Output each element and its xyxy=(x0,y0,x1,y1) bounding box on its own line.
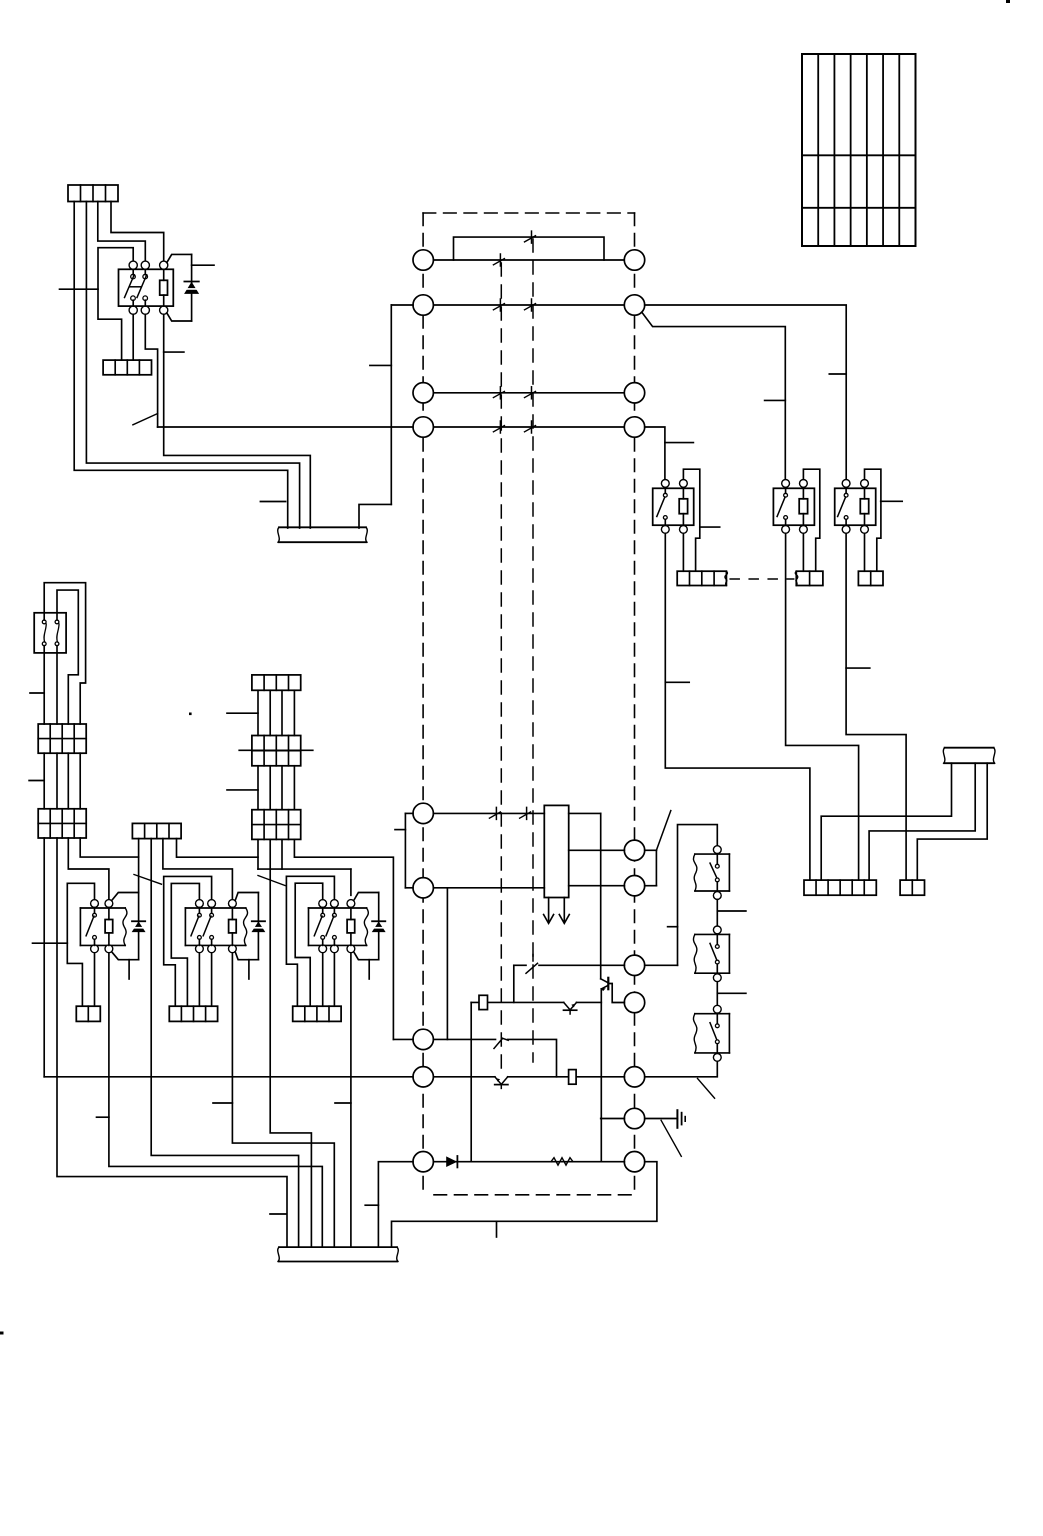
KA diode branch xyxy=(112,893,139,960)
transistor Q1 xyxy=(601,978,625,1003)
relay K1 box xyxy=(119,269,174,306)
module right pin R9 xyxy=(624,1067,644,1087)
switch box S4 xyxy=(34,613,66,653)
KB terminal bot2 xyxy=(208,945,216,953)
KA t1 loop xyxy=(67,883,94,1006)
KC contact pins 2 xyxy=(333,908,337,946)
switch S1 box xyxy=(693,854,729,891)
right bracket R5-R6 xyxy=(645,850,657,885)
connector P3 xyxy=(677,571,727,585)
switch S2 box xyxy=(693,934,729,973)
wire K1 pin1 top loop xyxy=(98,248,133,360)
K1 terminal t4 xyxy=(129,306,137,314)
wire P7-4 rail xyxy=(177,839,259,858)
wire J1 to main rail xyxy=(569,812,601,814)
K4 coil bottom wire xyxy=(864,534,866,572)
tick right of K2 xyxy=(700,526,720,528)
tick on L9 drop xyxy=(365,1204,378,1206)
wire P7-2 long to harness W2 xyxy=(151,839,298,1248)
module left pin L3 xyxy=(413,383,433,403)
K4 terminal top1 xyxy=(842,480,850,488)
harness bar W3 xyxy=(945,747,994,749)
wire T2-4 to connector P7 xyxy=(80,838,138,857)
module right pin R11 xyxy=(624,1152,644,1172)
bracket drop to harness W1 xyxy=(359,504,391,528)
K4 terminal top2 xyxy=(861,480,869,488)
connector P10 xyxy=(76,1006,100,1021)
KC switch arm 1 xyxy=(314,916,322,936)
relay KC box xyxy=(309,908,369,945)
KA stub xyxy=(128,960,130,979)
S3 terminal bottom xyxy=(713,1054,721,1062)
wire row3 xyxy=(433,392,624,394)
module left pin L7 xyxy=(413,1029,433,1049)
K3 coil top loop xyxy=(803,469,819,571)
row1 loop xyxy=(454,237,605,260)
KC diode branch xyxy=(354,893,379,960)
tick near harness W2 xyxy=(270,1213,286,1215)
tick on K4 feed xyxy=(829,373,846,375)
wire P7-3 to KB coil xyxy=(163,839,233,900)
harness bar W2 xyxy=(279,1246,397,1248)
thermal contact V2 xyxy=(495,1077,508,1085)
ground symbol xyxy=(677,1110,685,1128)
K2 contact pins xyxy=(663,488,667,525)
tick near harness W1 xyxy=(260,501,285,503)
diode D5 xyxy=(446,1156,457,1167)
tick at KA xyxy=(33,942,68,944)
wire P1-1 to harness W1 xyxy=(74,202,288,529)
leader slash near W1 wire xyxy=(133,414,158,425)
tick below S2 xyxy=(717,992,746,994)
connector P11 xyxy=(169,1006,217,1021)
dashed link P3-P4 xyxy=(730,578,794,580)
relay K2 box xyxy=(653,483,694,525)
wire row L8 xyxy=(433,1076,624,1078)
KB stub xyxy=(248,960,250,979)
wire row L5 to J1 xyxy=(433,812,544,814)
wires P6 to T3 xyxy=(258,690,294,735)
K2 terminal bot1 xyxy=(661,526,669,534)
resistor R2 xyxy=(569,1070,577,1085)
KA coil terminal top xyxy=(105,900,113,908)
wire T4-2 to harness W2 xyxy=(270,839,311,1247)
S1 terminal bottom xyxy=(713,892,721,900)
K4 coil top loop xyxy=(865,469,881,571)
module right pin R7 xyxy=(624,955,644,975)
dash mark left edge xyxy=(0,1332,4,1335)
K3 terminal bot1 xyxy=(782,526,790,534)
wire K3 to connector P8 xyxy=(786,534,859,881)
wire J1 to pin R6 xyxy=(569,885,625,887)
tick on K2 feed xyxy=(665,442,694,444)
terminal block T4 xyxy=(252,810,301,840)
relay K4 box xyxy=(835,483,876,525)
module right pin R5 xyxy=(624,840,644,860)
wire row4 xyxy=(433,426,624,428)
K3 coil bottom wire xyxy=(802,534,804,572)
wire K2 to connector P8 xyxy=(665,534,810,881)
KC terminal top2 xyxy=(331,900,339,908)
wire T4-4 long to pin L7 xyxy=(294,839,393,1039)
wire T4-3 down xyxy=(281,839,283,869)
KB switch arm 1 xyxy=(191,916,199,936)
K4 terminal bot2 xyxy=(861,526,869,534)
wire KC coil down xyxy=(350,953,352,1247)
leader slash at ground xyxy=(661,1120,681,1156)
K1 terminal t2 xyxy=(141,261,149,269)
wire P1-3 to K1 contact xyxy=(98,202,146,262)
wire T2-3 to KA coil xyxy=(68,838,109,899)
KC terminal top1 xyxy=(319,900,327,908)
leader slash at KC xyxy=(258,876,285,886)
wires T3-T4 xyxy=(258,766,294,810)
wire row2 xyxy=(433,304,624,306)
module right pin R6 xyxy=(624,876,644,896)
module right pin R4 xyxy=(624,417,644,437)
S4 loop inner xyxy=(57,590,78,724)
harness bar W1 xyxy=(279,526,366,528)
left bracket rows2-4 xyxy=(391,305,413,504)
K1 terminal t1 xyxy=(129,261,137,269)
S4 contacts xyxy=(42,620,59,646)
module right pin R1 xyxy=(624,250,644,270)
wire KC t1b down xyxy=(322,953,324,1006)
wire P1-2 to harness W1 xyxy=(86,202,299,529)
KC terminal bot2 xyxy=(331,945,339,953)
wire KA coil down xyxy=(109,953,322,1247)
KC coil terminal top xyxy=(347,900,355,908)
KB t2 loop xyxy=(164,876,212,1006)
KA coil xyxy=(105,908,113,946)
wire K1 t4 to connector P2 xyxy=(132,314,134,360)
tick left1 xyxy=(30,692,44,694)
K3 terminal top1 xyxy=(782,480,790,488)
wire pin R11 to bottom net xyxy=(392,1162,657,1247)
S2 arm xyxy=(710,943,717,959)
wire pin L7 left xyxy=(393,1038,413,1040)
stub on bottom net xyxy=(496,1221,498,1237)
dot mark 2 xyxy=(1006,0,1010,3)
branch L7 up xyxy=(446,888,448,1040)
wire mid rail to KC coil xyxy=(258,869,351,895)
module left pin L4 xyxy=(413,417,433,437)
wire row L6 to J1 xyxy=(433,887,544,889)
KC terminal bot1 xyxy=(319,945,327,953)
connector P6 xyxy=(252,675,301,690)
module left pin L9 xyxy=(413,1152,433,1172)
KB contact pins 2 xyxy=(210,908,214,946)
wire pin R10 to ground xyxy=(645,1118,678,1120)
wire KB coil down xyxy=(232,953,334,1247)
KB terminal top2 xyxy=(208,900,216,908)
connector P9 xyxy=(900,880,924,895)
wire row2 branch to K3 xyxy=(642,312,786,480)
splice mark row1 loop xyxy=(525,236,536,242)
chain bottom to pin R9 xyxy=(645,1062,718,1077)
tick mid1 xyxy=(227,712,258,714)
switch arm at R5 xyxy=(656,811,670,851)
contact switch on L7 row xyxy=(494,1038,508,1048)
K1 terminal t5 xyxy=(141,306,149,314)
wire T2-2 to harness W2 xyxy=(57,838,287,1247)
S4 bottom wires xyxy=(44,646,57,724)
S2 contacts xyxy=(715,934,719,973)
resistor R1 xyxy=(479,995,488,1009)
tick on KA coil wire xyxy=(97,1116,109,1118)
wire K1 t6 coil to harness W1 xyxy=(164,314,311,528)
thermal contact V1 xyxy=(564,1002,577,1010)
S1 arm xyxy=(710,863,717,877)
K2 terminal bot2 xyxy=(680,526,688,534)
link S1-S2 xyxy=(716,900,718,926)
diode DKA xyxy=(132,920,145,922)
K2 coil bottom wire xyxy=(682,534,684,572)
tick on K3 feed xyxy=(765,399,786,401)
diode DKB xyxy=(252,920,265,922)
terminal block T3 xyxy=(252,736,301,766)
connector P5 xyxy=(858,571,883,585)
wire K4 to connector P9 xyxy=(846,534,906,881)
K4 coil xyxy=(860,488,868,525)
KB terminal top1 xyxy=(196,900,204,908)
leader slash below chain xyxy=(698,1079,715,1099)
splice marks row4 xyxy=(493,421,535,433)
wire KC t2b down xyxy=(333,953,335,1006)
splice marks row3 xyxy=(493,387,535,399)
left bracket rows L5-L6 xyxy=(395,813,413,887)
tick on coil wire xyxy=(164,351,184,353)
KC coil xyxy=(347,908,355,946)
W3 wire 2 xyxy=(869,763,975,880)
connector P7 xyxy=(132,823,181,838)
wire J1 to pin R5 xyxy=(569,849,625,851)
switch S3 box xyxy=(693,1014,729,1053)
tick mid2 xyxy=(227,789,258,791)
KC coil terminal bot xyxy=(347,945,355,953)
S3 contacts xyxy=(715,1014,719,1053)
terminal block T1 xyxy=(38,724,86,753)
K4 contact pins xyxy=(844,488,848,525)
K3 coil xyxy=(799,488,807,525)
KB diode branch xyxy=(235,893,258,960)
KC stub xyxy=(368,960,370,979)
wire KB t1b down xyxy=(198,953,200,1006)
link S2-S3 xyxy=(716,982,718,1006)
J1 arrow out 1 xyxy=(544,898,554,924)
connector P8 xyxy=(804,880,876,895)
K1 contact pins xyxy=(131,269,148,306)
S3 terminal top xyxy=(713,1005,721,1013)
K3 terminal top2 xyxy=(800,480,808,488)
inner dashed line A xyxy=(500,263,502,1070)
leader slash at KB xyxy=(134,875,162,885)
KA contact pins 1 xyxy=(93,908,97,946)
module left pin L8 xyxy=(413,1067,433,1087)
wire row1 xyxy=(433,259,624,261)
K1 coil xyxy=(160,269,168,306)
KA terminal top1 xyxy=(91,900,99,908)
diode DKC xyxy=(372,920,385,922)
tick right of K4 xyxy=(881,500,903,502)
wire L7 to row L8 xyxy=(508,1039,557,1076)
KB coil terminal top xyxy=(229,900,237,908)
connector P12 xyxy=(293,1006,341,1021)
J1 arrow out 2 xyxy=(559,898,569,924)
KC t1 loop xyxy=(295,883,323,1006)
tick on KB coil wire xyxy=(213,1102,232,1104)
KA coil terminal bot xyxy=(105,945,113,953)
relay KB box xyxy=(185,908,247,945)
module left pin L6 xyxy=(413,878,433,898)
S2 terminal bottom xyxy=(713,974,721,982)
splice marks row L5 xyxy=(489,807,530,819)
wire row bottom xyxy=(433,1161,624,1163)
terminal strip table TB1 xyxy=(802,54,916,246)
branch R7 to base row xyxy=(513,965,515,1002)
K1 terminal t3 xyxy=(160,261,168,269)
module left pin L1 xyxy=(413,250,433,270)
K3 terminal bot2 xyxy=(800,526,808,534)
module left pin L5 xyxy=(413,803,433,823)
contact break R7 row xyxy=(526,955,538,974)
chain feed loop xyxy=(645,825,718,966)
K2 switch arm xyxy=(657,497,665,517)
KB coil terminal bot xyxy=(229,945,237,953)
wire row4 to K2 xyxy=(645,427,665,479)
connector P2 xyxy=(103,360,151,375)
connector P1 xyxy=(68,185,118,202)
left drop wire xyxy=(470,1002,472,1161)
KB t1 loop xyxy=(171,883,199,1006)
K2 terminal top2 xyxy=(680,480,688,488)
K1 terminal t6 xyxy=(160,306,168,314)
K1 switch arms xyxy=(125,275,147,298)
wire row2 to K4 xyxy=(645,305,847,480)
W3 wire 1 xyxy=(821,763,951,880)
K2 coil xyxy=(679,488,687,525)
crossing line through T3 xyxy=(239,749,313,751)
module left pin L2 xyxy=(413,295,433,315)
S3 arm xyxy=(710,1023,717,1040)
module right pin R2 xyxy=(624,295,644,315)
S4 loop outer xyxy=(44,583,85,724)
tick on bracket xyxy=(370,364,391,366)
diode D1 xyxy=(184,281,198,283)
module right pin R3 xyxy=(624,383,644,403)
wire P7-1 to diode DA xyxy=(138,839,140,893)
S1 terminal top xyxy=(713,846,721,854)
splice marks row2 xyxy=(493,299,535,311)
splice mark row1 xyxy=(493,259,504,265)
KC contact pins 1 xyxy=(321,908,325,946)
relay KA box xyxy=(80,908,127,945)
KC t2 loop xyxy=(286,876,334,1006)
main rail upper xyxy=(600,813,602,978)
K4 terminal bot1 xyxy=(842,526,850,534)
tick on KC coil wire xyxy=(335,1102,351,1104)
module right pin R10 xyxy=(624,1108,644,1128)
connector J1 block xyxy=(544,805,568,897)
resistor R3 zigzag xyxy=(551,1158,573,1165)
base row wire xyxy=(471,1001,601,1003)
main rail lower xyxy=(600,989,602,1162)
K3 switch arm xyxy=(777,497,785,517)
relay K3 box xyxy=(773,483,814,525)
wire K1 t5 to module pin xyxy=(145,314,157,427)
KB coil xyxy=(229,908,237,946)
KA terminal bot1 xyxy=(91,945,99,953)
KB terminal bot1 xyxy=(196,945,204,953)
K2 terminal top1 xyxy=(661,480,669,488)
wire row4 to K1 xyxy=(158,426,392,428)
K4 switch arm xyxy=(838,497,846,517)
S1 contacts xyxy=(715,854,719,891)
wire T4-1 down xyxy=(257,839,259,869)
K2 coil top loop xyxy=(683,469,699,571)
wires T1-T2 xyxy=(44,753,80,809)
inner dashed line B xyxy=(532,239,534,1062)
tick left2 xyxy=(29,780,44,782)
dot mark 1 xyxy=(189,713,192,716)
wire KA t1b to P10 xyxy=(94,953,96,1006)
KC switch arm 2 xyxy=(326,916,334,936)
KB contact pins 1 xyxy=(198,908,202,946)
wire KB t2b down xyxy=(211,953,213,1006)
wire pin R7 row xyxy=(514,964,625,966)
tick right of D1 xyxy=(192,264,214,266)
diode D1 branch xyxy=(167,254,192,321)
terminal block T2 xyxy=(38,809,86,838)
tick below S1 xyxy=(717,910,746,912)
K3 contact pins xyxy=(784,488,788,525)
wire P1-4 to K1 coil xyxy=(111,202,164,262)
long wire to pin L8 xyxy=(44,1076,413,1078)
wire pin L9 left xyxy=(378,1162,413,1247)
KA switch arm 1 xyxy=(86,916,94,936)
wire pin L7 row xyxy=(433,1038,495,1040)
module right pin R8 xyxy=(624,992,644,1012)
module boundary dashed box xyxy=(423,213,634,1195)
W3 wire 3 xyxy=(917,763,987,880)
wire T2-1 down xyxy=(43,838,45,1077)
wire pin R10 left xyxy=(601,1118,625,1120)
tick mark left of K1 xyxy=(60,288,99,290)
KB switch arm 2 xyxy=(203,916,211,936)
S2 terminal top xyxy=(713,926,721,934)
connector P4 xyxy=(795,571,823,585)
